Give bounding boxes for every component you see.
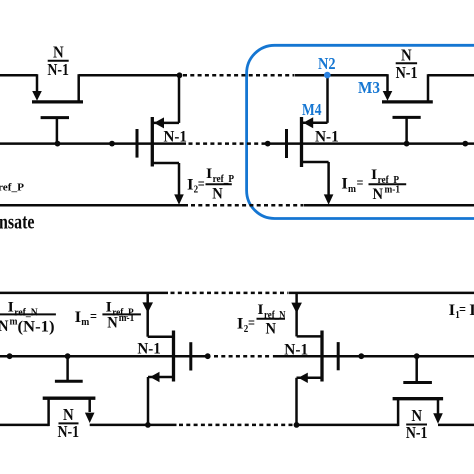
wire N6 source down to bottom rail [147, 377, 150, 425]
svg-text:I: I [449, 302, 456, 319]
junction dot mid rail P b [462, 141, 468, 147]
svg-text:m: m [348, 183, 356, 195]
transistor M4 gate bar [285, 129, 288, 158]
svg-text:=: = [459, 302, 466, 318]
wire Im drain down [327, 162, 330, 196]
wire bottom rail P solid left [0, 204, 188, 207]
value label M1 ratio N/(N-1) [47, 43, 69, 79]
svg-text:I: I [206, 166, 212, 182]
value label N5 ratio N/(N-1) [58, 405, 80, 441]
blue highlight box [247, 45, 474, 218]
svg-text:N-1: N-1 [315, 129, 339, 146]
wire mid rail P right [267, 142, 474, 145]
wire top rail P mid [79, 74, 180, 77]
arrow N7 source left [298, 373, 308, 383]
arrow I2 N drain down [291, 303, 302, 314]
svg-text:I: I [469, 302, 474, 319]
svg-text:=: = [248, 316, 255, 332]
transistor M4 channel [300, 117, 303, 167]
arrow N8 drain down [433, 413, 443, 423]
wire I2 drain down [178, 163, 181, 196]
current label Iref_N / N^m(N-1) at left edge [0, 300, 56, 336]
capacitor gate T right bar [403, 381, 432, 384]
arrow M1 source current down [32, 91, 42, 101]
transistor N5 drain leg [88, 398, 91, 412]
wire N-1 source up to top rail [178, 75, 181, 123]
svg-text:N: N [401, 46, 412, 65]
wire top rail P dashed [183, 74, 294, 77]
transistor N6 source leg [148, 376, 174, 379]
transistor N-1 source leg [153, 122, 179, 125]
transistor N5 source leg [47, 398, 50, 426]
svg-text:N: N [0, 318, 9, 335]
svg-text:N: N [373, 186, 384, 203]
current label I2 = Iref_P / N [187, 166, 234, 202]
svg-text:=: = [357, 176, 364, 192]
svg-text:N-1: N-1 [396, 63, 418, 82]
transistor M1 gate bar [41, 116, 69, 119]
wire bottom rail N dashed [179, 424, 295, 427]
svg-text:N-1: N-1 [164, 129, 187, 146]
transistor M1 channel [32, 100, 83, 103]
arrow Im current down [324, 194, 334, 204]
arrow I2 current down [174, 194, 184, 204]
svg-text:N-1: N-1 [284, 341, 308, 358]
svg-text:I: I [8, 300, 14, 316]
svg-text:N: N [266, 321, 277, 338]
wire mid rail N right [273, 355, 474, 358]
wire mid rail N solid left [0, 355, 208, 358]
transistor M4 drain leg [302, 161, 329, 164]
junction dot mid rail N c [358, 353, 364, 359]
svg-text:N-1: N-1 [137, 340, 160, 357]
arrow N6 source left [150, 372, 160, 382]
transistor N8 source leg [397, 399, 400, 426]
transistor N6 cascode top leg [148, 335, 174, 338]
junction dot mid rail N a [7, 353, 13, 359]
svg-text:m-1: m-1 [385, 184, 401, 195]
svg-text:(N-1): (N-1) [18, 318, 55, 335]
current label I1=I cut at right edge [449, 302, 474, 321]
wire top rail P solid left [0, 74, 37, 77]
wire top rail P in box [295, 74, 388, 77]
arrow M3 source current down [383, 91, 393, 101]
junction dot mid rail N b [205, 353, 211, 359]
transistor N-1 drain leg [153, 162, 179, 165]
transistor N7 cascode top leg [297, 335, 322, 338]
svg-text:I: I [371, 167, 377, 183]
transistor N6 channel [172, 331, 175, 382]
svg-text:I: I [106, 300, 112, 316]
arrow M4 source left [303, 117, 313, 128]
svg-text:ref_N: ref_N [14, 307, 38, 318]
transistor N7 source leg [297, 377, 323, 380]
svg-text:I: I [257, 302, 263, 318]
wire bottom rail N right [438, 424, 474, 427]
svg-text:=: = [90, 309, 97, 325]
wire top rail P right [428, 74, 474, 77]
junction dot gate N5 [65, 353, 71, 359]
svg-text:N-1: N-1 [47, 60, 69, 79]
transistor N5 left NMOS channel [43, 397, 96, 400]
value label N8 ratio N/(N-1) [406, 406, 428, 442]
wire mid rail N dashed [214, 355, 273, 358]
value label M3 ratio N/(N-1) [396, 46, 418, 82]
transistor N7 channel [320, 331, 323, 382]
wire top rail N dashed [171, 292, 289, 295]
wire N5 gate to mid rail [66, 356, 69, 381]
wire I2 drain from top rail N [295, 293, 298, 337]
transistor N6 gate bar [189, 342, 192, 370]
transistor M1 left PMOS source leg [36, 74, 39, 92]
svg-text:m-1: m-1 [119, 313, 135, 324]
current label Im = Iref_P / N^(m-1) bottom [75, 300, 141, 332]
transistor M3 source leg [386, 74, 389, 92]
junction dot gate M3 [404, 141, 410, 147]
wire top rail N solid left [0, 292, 168, 295]
svg-text:M3: M3 [358, 78, 380, 97]
svg-text:I: I [75, 309, 82, 326]
junction dot gate N8 [414, 353, 420, 359]
svg-text:N: N [212, 185, 223, 202]
svg-text:I: I [341, 176, 348, 193]
transistor M3 gate bar [393, 116, 421, 119]
svg-text:N: N [411, 406, 422, 425]
wire mid rail P solid left [0, 142, 186, 145]
wire bottom rail P dashed [191, 204, 303, 207]
svg-text:N2: N2 [318, 54, 336, 73]
transistor N5 gate bar [55, 380, 83, 383]
current label Im = Iref_P / N^(m-1) [341, 167, 406, 203]
svg-text:N: N [107, 315, 118, 332]
svg-text:ref_P: ref_P [0, 183, 25, 194]
svg-text:I: I [187, 176, 194, 193]
svg-text:=: = [198, 176, 205, 192]
junction dot N6 bottom rail [145, 422, 151, 428]
arrow N5 drain down [85, 413, 95, 423]
current label I2 = Iref_N / N bottom [237, 302, 286, 337]
junction dot N7 bottom rail [294, 422, 300, 428]
wire mid rail P dashed [189, 142, 267, 145]
wire bottom rail N left [0, 424, 49, 427]
transistor N-1 cascode channel [151, 117, 154, 167]
wire N7 source down to bottom rail [295, 378, 298, 425]
svg-text:M4: M4 [302, 100, 322, 119]
wire top rail N right [289, 292, 474, 295]
wire Im drain from top rail N [146, 293, 149, 337]
junction dot mid rail P a [109, 141, 115, 147]
transistor M4 source leg [302, 122, 328, 125]
svg-text:N-1: N-1 [406, 423, 428, 442]
capacitor gate T right cell [415, 356, 418, 382]
arrow N-1 source left [154, 117, 164, 128]
wire bottom rail P right [304, 204, 474, 207]
wire M3 gate to mid rail [405, 117, 408, 143]
transistor M1 drain leg [77, 74, 80, 102]
svg-text:N-1: N-1 [58, 422, 80, 441]
transistor N-1 cascode gate bar [136, 129, 139, 158]
wire M1 gate to mid rail [56, 118, 59, 144]
junction dot mid rail P box [265, 141, 271, 147]
arrow Im N drain down [142, 302, 153, 313]
svg-text:m: m [81, 316, 89, 328]
svg-text:N: N [53, 43, 64, 62]
junction dot gate M1 [55, 141, 61, 147]
transistor N7 gate bar [337, 342, 340, 370]
transistor N8 right NMOS channel [393, 397, 444, 400]
wire bottom rail N seg3 [297, 424, 399, 427]
transistor M3 channel [382, 100, 433, 103]
node N2 blue dot [324, 72, 331, 79]
junction dot N-1 top rail [177, 72, 183, 78]
wire bottom rail N seg2 [90, 424, 177, 427]
svg-text:ref_P: ref_P [213, 174, 235, 185]
transistor N8 drain leg [437, 399, 440, 414]
svg-text:nsate: nsate [0, 210, 35, 234]
transistor M3 drain leg [427, 74, 430, 102]
wire N2 vertical [326, 75, 329, 123]
svg-text:I: I [237, 316, 244, 333]
